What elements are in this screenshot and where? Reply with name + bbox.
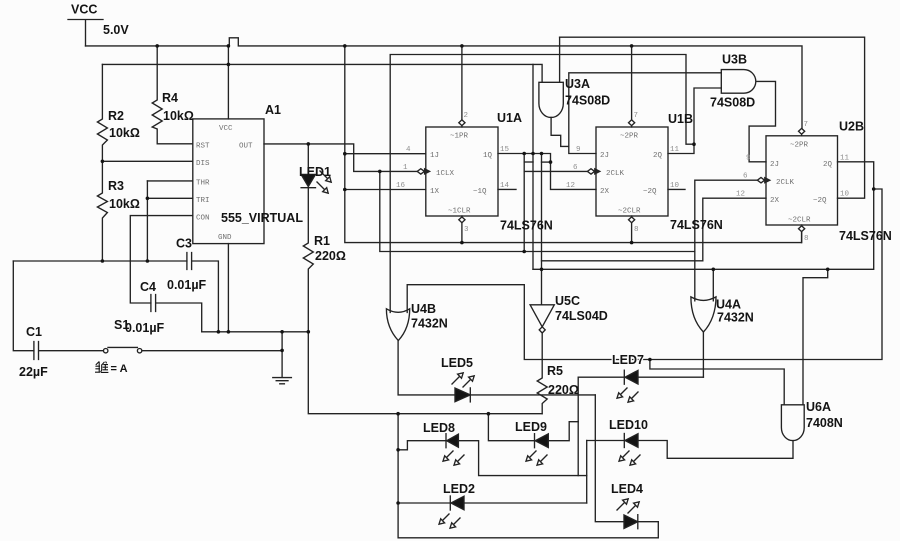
wire 2Q U1B up to U3B input [668, 88, 721, 154]
svg-text:5.0V: 5.0V [103, 23, 129, 37]
svg-text:6: 6 [743, 173, 748, 181]
or-gate U4B [386, 309, 409, 341]
svg-text:7: 7 [804, 121, 809, 129]
svg-text:74LS76N: 74LS76N [500, 219, 553, 233]
svg-text:1X: 1X [430, 188, 440, 196]
LED LED1 [301, 144, 315, 188]
svg-text:2X: 2X [770, 197, 780, 205]
svg-text:0.01µF: 0.01µF [125, 321, 165, 335]
svg-text:6: 6 [573, 164, 578, 172]
svg-text:2: 2 [464, 112, 469, 120]
svg-text:11: 11 [670, 146, 680, 154]
wire 2 from 1CLK node [380, 171, 695, 251]
wire A1 VCC pin stub [227, 46, 229, 119]
wire A1 GND stub [227, 244, 229, 332]
wire THR [147, 180, 192, 182]
pin labels U1B [566, 112, 680, 234]
svg-text:DIS: DIS [196, 160, 210, 168]
flip-flop U1B box [596, 127, 668, 216]
wire U1A ~1PR stub [461, 46, 463, 127]
svg-text:16: 16 [396, 182, 406, 190]
LED LED4 [624, 515, 638, 528]
svg-text:15: 15 [500, 146, 510, 154]
pin labels U2B [736, 121, 850, 243]
svg-text:R3: R3 [108, 179, 124, 193]
wire step to LED8 [398, 441, 446, 450]
svg-text:C1: C1 [26, 325, 42, 339]
svg-text:2Q: 2Q [823, 161, 833, 169]
wire ~2Q U1B stub [668, 188, 685, 190]
svg-text:7432N: 7432N [411, 317, 448, 331]
wire left branch down to C1 [13, 261, 34, 351]
wire U2B 2CLK feed [695, 180, 758, 301]
hanzi jian key label [95, 362, 108, 373]
svg-text:2J: 2J [600, 152, 609, 160]
svg-text:2J: 2J [770, 161, 779, 169]
wire U5C input vertical [541, 154, 543, 305]
capacitor C4 [151, 295, 202, 332]
wire C3 row [13, 260, 187, 262]
LED LED8 [445, 434, 447, 448]
wire jog B [542, 161, 551, 163]
svg-text:CON: CON [196, 214, 210, 222]
wire 1Q output row of U1A to 2X [498, 154, 596, 190]
svg-text:1CLX: 1CLX [436, 170, 455, 178]
svg-text:R5: R5 [547, 364, 563, 378]
wire U4A output [702, 332, 704, 377]
svg-text:LED7: LED7 [612, 353, 644, 367]
svg-text:7: 7 [634, 112, 639, 120]
wire step to LED9 [488, 414, 534, 441]
svg-text:~1PR: ~1PR [450, 133, 469, 141]
wire riser to U3B input A [569, 73, 722, 147]
svg-text:2CLK: 2CLK [776, 179, 795, 187]
wire LED10 row [587, 440, 625, 442]
capacitor C1 [34, 342, 104, 360]
svg-text:R1: R1 [314, 234, 330, 248]
svg-text:VCC: VCC [219, 125, 233, 133]
svg-text:U2B: U2B [839, 120, 864, 134]
and-gate U3B [721, 70, 756, 94]
wire VCC top rail with hop [86, 38, 803, 129]
svg-text:2CLK: 2CLK [606, 170, 625, 178]
node 2CLK diamond U1B [587, 169, 594, 174]
wire DIS [102, 160, 192, 162]
pin labels U1A [396, 112, 510, 234]
wire ground tie row [202, 331, 309, 333]
svg-text:LED9: LED9 [515, 420, 547, 434]
resistor R5 [537, 333, 547, 414]
LED10 arrows [622, 451, 640, 462]
op-amp A1 555 timer box [193, 119, 264, 244]
svg-text:R4: R4 [162, 91, 178, 105]
svg-text:74LS04D: 74LS04D [555, 309, 608, 323]
svg-text:74LS76N: 74LS76N [839, 229, 892, 243]
node 1CLK diamond U1A [417, 169, 424, 174]
LED LED2 [449, 496, 451, 510]
svg-text:3: 3 [464, 226, 469, 234]
wire U4B input B long loop [407, 189, 882, 360]
svg-text:11: 11 [840, 155, 850, 163]
svg-text:RST: RST [196, 143, 210, 151]
LED8 arrows [446, 451, 464, 462]
svg-text:1Q: 1Q [483, 152, 493, 160]
svg-text:10kΩ: 10kΩ [163, 109, 194, 123]
wire CON to C4 [130, 216, 193, 303]
wire V1 vertical [523, 154, 525, 252]
wire U1B ~2CLR stub [631, 216, 633, 243]
VCC power symbol [68, 20, 103, 46]
LED2 arrows [442, 514, 460, 525]
svg-text:LED2: LED2 [443, 482, 475, 496]
wire 1X [345, 189, 426, 191]
svg-text:U3A: U3A [565, 77, 590, 91]
switch S1 [108, 347, 282, 350]
svg-text:10kΩ: 10kΩ [109, 197, 140, 211]
LED LED10 [623, 434, 625, 448]
svg-text:7432N: 7432N [717, 311, 754, 325]
wire 4 row to U2B 2Q pin 11 [533, 162, 874, 269]
wire U4B input A from 2Q U1B net [390, 55, 694, 313]
LED7 arrows [620, 388, 638, 399]
wire jog A [524, 161, 533, 163]
wire U4B output / LED5 row [398, 341, 595, 395]
svg-text:LED1: LED1 [299, 165, 331, 179]
svg-text:C3: C3 [176, 237, 192, 251]
wire U3B output to 2J U2B [749, 81, 775, 161]
svg-text:10: 10 [840, 191, 850, 199]
svg-text:~2PR: ~2PR [790, 142, 809, 150]
svg-text:220Ω: 220Ω [548, 383, 579, 397]
svg-text:U5C: U5C [555, 294, 580, 308]
svg-text:= A: = A [111, 363, 128, 375]
wire U3A input B from feedback rail [559, 37, 561, 82]
wire TRI [147, 197, 192, 199]
svg-text:1J: 1J [430, 152, 439, 160]
and-gate U3A [539, 82, 563, 117]
wire U1B ~2PR stub [631, 46, 633, 127]
svg-text:LED8: LED8 [423, 421, 455, 435]
pin labels A1 [196, 125, 253, 242]
wire 3 row [542, 260, 703, 262]
svg-text:LED4: LED4 [611, 482, 643, 496]
svg-text:~2CLR: ~2CLR [788, 217, 811, 225]
LED LED5 [469, 388, 471, 402]
svg-text:U3B: U3B [722, 53, 747, 67]
svg-text:LED10: LED10 [609, 418, 648, 432]
wire LED7 chain [578, 377, 624, 475]
node ~2PR U2B diamond [799, 128, 805, 135]
wire U1A ~1CLR stub [461, 216, 463, 243]
wire OUT to 1CLK [264, 144, 417, 172]
wire LED2 row [398, 502, 450, 504]
node 2CLK diamond U2B [757, 178, 764, 183]
wire U2B ~2CLR stub [801, 225, 803, 243]
svg-text:U4B: U4B [411, 302, 436, 316]
LED5 arrows [452, 376, 471, 387]
svg-text:A1: A1 [265, 103, 281, 117]
svg-text:U6A: U6A [806, 400, 831, 414]
wire R1 branch to LED rows and bottom rail [398, 414, 658, 538]
svg-text:OUT: OUT [239, 143, 253, 151]
svg-text:8: 8 [634, 226, 639, 234]
or-gate U4A [691, 297, 716, 332]
wire U6A input B staircase [803, 269, 828, 405]
flip-flop U1A box [426, 127, 498, 216]
svg-text:VCC: VCC [71, 3, 97, 17]
wire LED cathode vertical [586, 441, 588, 504]
svg-text:R2: R2 [108, 109, 124, 123]
wire U3A output staircase to 2J U1B [551, 117, 596, 153]
svg-text:7408N: 7408N [806, 416, 843, 430]
resistor R2 and resistor R3 chain [97, 64, 107, 261]
svg-text:74S08D: 74S08D [710, 96, 755, 110]
svg-text:~1Q: ~1Q [473, 188, 487, 196]
wire LED4 feed vertical [595, 395, 624, 522]
wire VCC branch row to U3A input A [102, 64, 542, 82]
wire U6A input A from LED7 net [650, 360, 784, 405]
wire V2 vertical from VCC row [532, 64, 534, 269]
wire ~1Q stub [498, 188, 516, 190]
svg-text:74S08D: 74S08D [565, 94, 610, 108]
LED LED9 [534, 434, 536, 448]
svg-text:U1A: U1A [497, 111, 522, 125]
svg-text:THR: THR [196, 180, 210, 188]
svg-text:8: 8 [804, 235, 809, 243]
wire feedback rail to ~2Q U2B pin 10 [560, 37, 865, 198]
svg-text:10: 10 [670, 182, 680, 190]
svg-text:14: 14 [500, 182, 510, 190]
svg-text:0.01µF: 0.01µF [167, 278, 207, 292]
capacitor C3 [187, 253, 219, 332]
wire 1J [345, 153, 426, 155]
svg-text:~2Q: ~2Q [643, 188, 657, 196]
svg-text:9: 9 [746, 155, 751, 163]
svg-text:9: 9 [576, 146, 581, 154]
wire VCC tie to J K CLR pins [345, 46, 802, 243]
svg-text:~2Q: ~2Q [813, 197, 827, 205]
flip-flop U2B box [766, 136, 838, 225]
svg-text:TRI: TRI [196, 197, 210, 205]
svg-text:LED5: LED5 [441, 356, 473, 370]
LED LED7 [623, 370, 625, 384]
svg-text:2Q: 2Q [653, 152, 663, 160]
svg-text:~1CLR: ~1CLR [448, 208, 471, 216]
svg-text:GND: GND [218, 234, 232, 242]
wire U2B 2X feed [703, 198, 766, 261]
svg-text:2X: 2X [600, 188, 610, 196]
wire THR/TRI vertical [146, 181, 148, 261]
wire 2CLK U1B [524, 170, 587, 172]
svg-text:12: 12 [736, 191, 745, 199]
svg-text:~2PR: ~2PR [620, 133, 639, 141]
svg-text:1: 1 [403, 164, 408, 172]
and-gate U6A [781, 405, 804, 441]
svg-text:C4: C4 [140, 280, 156, 294]
svg-text:4: 4 [406, 146, 411, 154]
svg-text:74LS76N: 74LS76N [670, 218, 723, 232]
svg-text:22µF: 22µF [19, 365, 48, 379]
LED9 arrows [529, 451, 547, 462]
resistor R1 [303, 188, 542, 414]
inverter U5C [530, 305, 554, 327]
svg-text:12: 12 [566, 182, 575, 190]
wire U4A input B stub [712, 269, 714, 301]
svg-text:U1B: U1B [668, 112, 693, 126]
svg-text:10kΩ: 10kΩ [109, 126, 140, 140]
resistor R4 [152, 46, 193, 144]
svg-text:220Ω: 220Ω [315, 249, 346, 263]
LED1 arrows [317, 171, 328, 190]
svg-text:555_VIRTUAL: 555_VIRTUAL [221, 211, 303, 225]
svg-text:U4A: U4A [716, 298, 741, 312]
ground [273, 332, 292, 384]
svg-text:~2CLR: ~2CLR [618, 208, 641, 216]
LED4 arrows [617, 502, 636, 513]
